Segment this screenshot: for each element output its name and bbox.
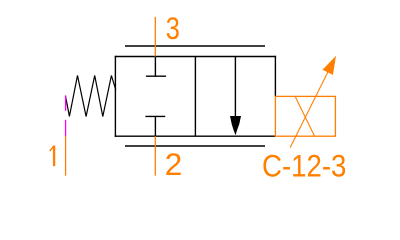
pilot wire magenta dash 1 xyxy=(65,96,67,111)
valve body envelope xyxy=(115,56,276,137)
cavity box C-12-3 xyxy=(275,96,335,136)
top envelope line xyxy=(125,45,265,47)
adjustment arrow xyxy=(290,56,336,148)
bottom envelope line xyxy=(125,145,265,147)
pilot wire magenta dash 2 xyxy=(65,120,67,136)
svg-text:3: 3 xyxy=(166,10,180,46)
blocked port top T xyxy=(146,57,166,77)
cavity X stroke xyxy=(295,96,315,136)
blocked port bottom T xyxy=(145,116,165,136)
svg-text:C-12-3: C-12-3 xyxy=(262,148,346,184)
port 2 wire xyxy=(154,136,156,175)
svg-text:2: 2 xyxy=(165,146,183,182)
port label 1 xyxy=(50,146,54,167)
port 1 wire xyxy=(65,136,67,175)
flow path arrow xyxy=(230,57,241,136)
envelope divider xyxy=(194,57,196,137)
port 3 wire xyxy=(154,17,156,57)
spring xyxy=(65,76,115,117)
